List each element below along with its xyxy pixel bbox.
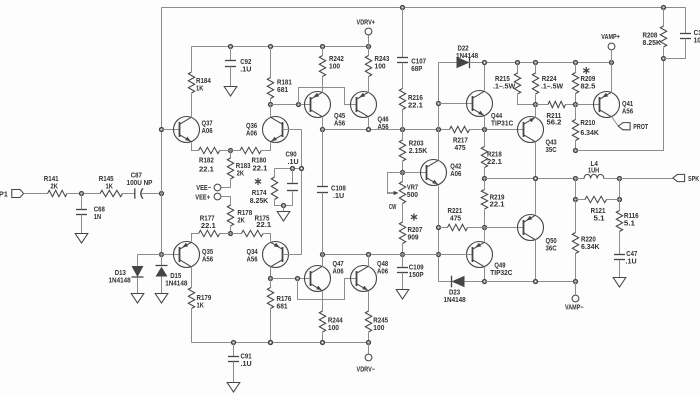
svg-text:R224: R224 bbox=[542, 76, 557, 83]
inductor L4 1UH bbox=[576, 178, 585, 180]
svg-text:C109: C109 bbox=[409, 264, 424, 271]
svg-text:A06: A06 bbox=[202, 128, 213, 135]
diode D22 1N4148 bbox=[439, 62, 457, 64]
svg-text:R208: R208 bbox=[643, 32, 658, 39]
capacitor C111 100P bbox=[685, 8, 687, 34]
wire Q44 emitter bbox=[484, 116, 486, 130]
node output rail left end bbox=[483, 177, 487, 181]
ground C109 bbox=[396, 290, 409, 300]
svg-text:R209: R209 bbox=[581, 76, 596, 83]
svg-text:A06: A06 bbox=[377, 268, 388, 275]
resistor R178 2K bbox=[221, 197, 231, 206]
svg-text:PROT: PROT bbox=[633, 124, 648, 131]
svg-text:500: 500 bbox=[407, 192, 418, 199]
terminal VAMP- bbox=[575, 282, 577, 295]
output tag SPK bbox=[673, 174, 685, 181]
svg-text:R218: R218 bbox=[487, 151, 502, 158]
svg-text:VAMP−: VAMP− bbox=[565, 304, 584, 311]
svg-text:150P: 150P bbox=[409, 272, 424, 279]
resistor R209 82.5 bbox=[575, 63, 577, 73]
resistor R219 22.1 bbox=[484, 179, 486, 190]
svg-text:Q50: Q50 bbox=[546, 238, 557, 245]
node emitter bottom pair bbox=[229, 232, 233, 236]
resistor R217 475 bbox=[450, 126, 470, 132]
svg-text:1N: 1N bbox=[94, 214, 101, 221]
wire R141 to R145 bbox=[68, 193, 101, 195]
svg-text:22.1: 22.1 bbox=[490, 201, 505, 208]
svg-text:R145: R145 bbox=[99, 176, 114, 183]
svg-text:Q44: Q44 bbox=[491, 113, 502, 120]
terminal VEE- bbox=[214, 184, 221, 191]
node R221/R219/Q49/Q50 bbox=[483, 226, 487, 230]
transistor Q34 A56 bbox=[263, 242, 289, 268]
resistor R211 56.2 bbox=[536, 104, 549, 106]
transistor Q44 TIP31C bbox=[439, 103, 473, 105]
node ground stub bbox=[282, 204, 286, 208]
svg-text:R116: R116 bbox=[624, 213, 639, 220]
wire Q36 base to C90 node and Q34 base bbox=[301, 130, 303, 255]
node R215/R224/R211/Q43 bbox=[534, 103, 538, 107]
resistor R184 1K bbox=[191, 94, 193, 118]
svg-text:Q47: Q47 bbox=[333, 261, 344, 268]
svg-text:100: 100 bbox=[329, 63, 340, 70]
transistor Q46 A56 bbox=[351, 92, 377, 118]
svg-text:A56: A56 bbox=[247, 256, 258, 263]
capacitor C92 .1U bbox=[229, 45, 233, 49]
resistor R177 22.1 bbox=[192, 234, 199, 242]
svg-text:R176: R176 bbox=[277, 296, 292, 303]
svg-text:6.34K: 6.34K bbox=[580, 130, 599, 137]
node Q34 collector bbox=[270, 267, 272, 279]
resistor R145 1K bbox=[100, 190, 123, 196]
svg-text:R207: R207 bbox=[408, 227, 423, 234]
wire Q48 collector bbox=[368, 255, 370, 267]
ground D13 bbox=[131, 294, 144, 304]
svg-text:Q41: Q41 bbox=[622, 101, 633, 108]
svg-text:22.1: 22.1 bbox=[201, 223, 216, 230]
resistor R183 2K bbox=[230, 151, 232, 159]
svg-text:8.25K: 8.25K bbox=[643, 40, 662, 47]
svg-text:100: 100 bbox=[375, 63, 386, 70]
wire VAS rail bbox=[322, 118, 324, 130]
svg-text:1UH: 1UH bbox=[588, 167, 599, 174]
svg-text:D15: D15 bbox=[170, 273, 181, 280]
resistor R121 5.1 bbox=[575, 179, 577, 200]
transistor Q37 A06 bbox=[162, 129, 180, 131]
capacitor C107 68P bbox=[401, 6, 405, 10]
wire Q47/Q48 base tie bbox=[298, 279, 357, 300]
wire Q43 emitter up bbox=[535, 105, 537, 118]
svg-text:A06: A06 bbox=[333, 268, 344, 275]
resistor R116 5.1 bbox=[619, 200, 621, 211]
resistor R180 22.1 bbox=[240, 147, 261, 153]
svg-text:1K: 1K bbox=[197, 302, 204, 309]
svg-text:36C: 36C bbox=[546, 245, 557, 252]
svg-text:VEE−: VEE− bbox=[196, 185, 211, 192]
capacitor C91 .1U bbox=[233, 343, 235, 357]
svg-text:22.1: 22.1 bbox=[408, 102, 423, 109]
svg-text:R215: R215 bbox=[495, 76, 510, 83]
wire Q43 collector down bbox=[535, 142, 537, 179]
svg-text:C107: C107 bbox=[411, 58, 426, 65]
svg-text:R181: R181 bbox=[277, 79, 292, 86]
wire Q41 emitter to PROT bbox=[612, 117, 619, 127]
terminal VDRV- bbox=[368, 343, 370, 354]
svg-text:VDRV−: VDRV− bbox=[357, 366, 376, 373]
resistor R141 2K bbox=[48, 190, 67, 196]
resistor R182 22.1 bbox=[192, 143, 199, 151]
svg-text:Q49: Q49 bbox=[494, 262, 505, 269]
svg-text:R245: R245 bbox=[373, 317, 388, 324]
network C90 parallel R174 bbox=[275, 168, 302, 170]
svg-text:VR7: VR7 bbox=[407, 184, 418, 191]
svg-text:VEE+: VEE+ bbox=[195, 195, 210, 202]
svg-text:R219: R219 bbox=[490, 194, 505, 201]
svg-text:Q36: Q36 bbox=[246, 123, 257, 130]
asterisk R174 bbox=[257, 178, 259, 185]
wire Q44 collector bbox=[484, 63, 486, 91]
transistor Q36 A06 bbox=[270, 105, 272, 118]
svg-text:100: 100 bbox=[373, 325, 384, 332]
output tag PROT bbox=[618, 123, 630, 130]
wire output rail bbox=[485, 178, 576, 180]
svg-text:1K: 1K bbox=[106, 184, 113, 191]
transistor Q49 TIP32C bbox=[439, 254, 473, 256]
svg-text:100: 100 bbox=[328, 325, 339, 332]
wire driver collector rail bbox=[323, 254, 472, 256]
wire Q41 collector to VAMP+ node bbox=[611, 63, 613, 93]
ground C90/R174 bbox=[277, 212, 290, 222]
ground C91 bbox=[227, 383, 240, 393]
wire to D13 bbox=[138, 254, 162, 256]
svg-text:.1–.5W: .1–.5W bbox=[541, 83, 564, 90]
svg-text:22.1: 22.1 bbox=[253, 165, 268, 172]
svg-text:A56: A56 bbox=[202, 256, 213, 263]
ground C92 bbox=[224, 87, 237, 97]
resistor R218 22.1 bbox=[484, 130, 486, 147]
svg-text:A06: A06 bbox=[246, 130, 257, 137]
svg-text:909: 909 bbox=[408, 234, 419, 241]
resistor R216 22.1 bbox=[399, 89, 405, 110]
trimmer VR7 500 bbox=[402, 173, 404, 182]
svg-text:.1–.5W: .1–.5W bbox=[493, 83, 516, 90]
svg-text:D23: D23 bbox=[449, 289, 460, 296]
svg-text:C68: C68 bbox=[94, 206, 105, 213]
diode D23 1N4148 bbox=[439, 281, 452, 283]
svg-text:C90: C90 bbox=[286, 151, 297, 158]
resistor R174 8.25K bbox=[274, 169, 276, 178]
svg-text:Q45: Q45 bbox=[334, 113, 345, 120]
svg-text:IP1: IP1 bbox=[0, 192, 8, 199]
svg-text:C87: C87 bbox=[131, 173, 142, 180]
wire IP1 to R141 bbox=[24, 193, 48, 195]
svg-text:2.15K: 2.15K bbox=[409, 148, 428, 155]
capacitor C87 100U NP bbox=[123, 193, 135, 195]
wire feedback top rail bbox=[162, 7, 686, 9]
svg-text:Q48: Q48 bbox=[377, 261, 388, 268]
capacitor C109 150P bbox=[401, 253, 405, 257]
svg-text:1K: 1K bbox=[196, 86, 203, 93]
svg-text:R244: R244 bbox=[328, 317, 343, 324]
transistor Q41 A56 bbox=[576, 104, 600, 106]
svg-text:R182: R182 bbox=[199, 157, 214, 164]
svg-text:C91: C91 bbox=[241, 353, 252, 360]
resistor R203 2.15K bbox=[402, 130, 404, 141]
svg-text:Q37: Q37 bbox=[202, 120, 213, 127]
svg-text:68P: 68P bbox=[411, 66, 422, 73]
svg-text:1N4148: 1N4148 bbox=[109, 278, 131, 285]
svg-text:R221: R221 bbox=[448, 208, 463, 215]
wire to SPK bbox=[620, 178, 673, 180]
transistor Q47 A06 bbox=[271, 278, 311, 280]
wire feedback to R208/C111 bbox=[576, 59, 664, 151]
svg-text:C92: C92 bbox=[240, 59, 251, 66]
svg-text:1N4148: 1N4148 bbox=[444, 297, 466, 304]
transistor Q48 A06 bbox=[351, 266, 377, 292]
svg-text:100U NP: 100U NP bbox=[127, 180, 153, 187]
svg-text:C108: C108 bbox=[331, 185, 346, 192]
node input shunt bbox=[80, 192, 84, 196]
resistor R244 100 bbox=[322, 292, 324, 312]
svg-text:82.5: 82.5 bbox=[581, 83, 596, 90]
svg-text:100: 100 bbox=[694, 37, 700, 44]
capacitor C68 1N bbox=[81, 194, 83, 210]
svg-text:A56: A56 bbox=[334, 120, 345, 127]
wire mirror base tie bbox=[299, 88, 357, 105]
svg-text:R184: R184 bbox=[196, 78, 211, 85]
svg-text:C47: C47 bbox=[626, 251, 637, 258]
svg-text:Q35: Q35 bbox=[202, 249, 213, 256]
svg-text:1N4148: 1N4148 bbox=[165, 281, 187, 288]
svg-text:VAMP+: VAMP+ bbox=[601, 34, 620, 41]
resistor R221 475 bbox=[439, 227, 448, 229]
node Q36 collector / R181 / mirror bases bbox=[269, 103, 273, 107]
node feedback tap bbox=[574, 149, 578, 153]
input tag IP1 bbox=[12, 190, 24, 198]
svg-text:.1U: .1U bbox=[288, 159, 299, 166]
svg-text:CW: CW bbox=[389, 204, 397, 211]
svg-text:2K: 2K bbox=[51, 184, 58, 191]
ground C68 bbox=[75, 234, 88, 244]
resistor R179 1K bbox=[191, 267, 193, 288]
svg-text:R183: R183 bbox=[236, 163, 251, 170]
wire negative rail bbox=[485, 281, 576, 283]
node input column bbox=[160, 192, 164, 196]
svg-text:681: 681 bbox=[277, 87, 288, 94]
resistor R215 .1-.5W bbox=[517, 63, 519, 74]
svg-text:22.1: 22.1 bbox=[256, 222, 271, 229]
terminal VEE+ bbox=[214, 193, 221, 200]
ground C47 bbox=[613, 278, 626, 288]
resistor R220 6.34K bbox=[575, 200, 577, 233]
svg-text:TIP32C: TIP32C bbox=[490, 270, 512, 277]
svg-text:56.2: 56.2 bbox=[547, 119, 562, 126]
svg-text:D22: D22 bbox=[458, 45, 469, 52]
wire VDRV+ rail bbox=[192, 46, 369, 48]
svg-text:R177: R177 bbox=[200, 215, 215, 222]
svg-text:R243: R243 bbox=[375, 56, 390, 63]
svg-text:.1U: .1U bbox=[241, 361, 252, 368]
transistor Q35 A56 bbox=[162, 254, 180, 256]
svg-text:22.1: 22.1 bbox=[487, 159, 502, 166]
svg-text:R121: R121 bbox=[591, 208, 606, 215]
svg-text:SPK: SPK bbox=[688, 176, 699, 183]
svg-text:.1U: .1U bbox=[626, 258, 637, 265]
wire bottom rail bbox=[192, 342, 369, 344]
svg-text:6.34K: 6.34K bbox=[581, 244, 600, 251]
transistor Q50 36C bbox=[485, 227, 524, 229]
transistor Q42 A06 bbox=[403, 172, 427, 174]
capacitor C90 .1U bbox=[292, 169, 294, 184]
svg-text:TIP31C: TIP31C bbox=[491, 120, 513, 127]
terminal VAMP+ bbox=[611, 51, 613, 63]
resistor R207 909 bbox=[399, 222, 405, 244]
resistor R210 6.34K bbox=[575, 105, 577, 120]
svg-text:D13: D13 bbox=[115, 270, 126, 277]
svg-text:C110: C110 bbox=[694, 30, 700, 37]
capacitor C108 .1U bbox=[322, 130, 324, 187]
terminal VDRV+ bbox=[368, 35, 370, 47]
capacitor C47 .1U bbox=[614, 254, 625, 256]
ground D15 bbox=[155, 294, 168, 304]
svg-text:R180: R180 bbox=[252, 157, 267, 164]
node VR7 top / Q42 base bbox=[401, 171, 405, 175]
svg-text:R216: R216 bbox=[408, 95, 423, 102]
diode D13 1N4148 bbox=[137, 255, 139, 267]
node Q37 base bbox=[160, 128, 164, 132]
svg-text:R217: R217 bbox=[453, 137, 468, 144]
resistor R181 681 bbox=[269, 45, 273, 49]
svg-text:475: 475 bbox=[450, 215, 461, 222]
svg-text:681: 681 bbox=[277, 303, 288, 310]
node R209/R211/R210/Q41 base bbox=[574, 103, 578, 107]
wire VAMP+ rail bbox=[485, 62, 612, 64]
svg-text:8.25K: 8.25K bbox=[250, 198, 269, 205]
resistor R242 100 bbox=[321, 45, 325, 49]
svg-text:R141: R141 bbox=[44, 176, 59, 183]
svg-text:R178: R178 bbox=[237, 210, 252, 217]
resistor R176 681 bbox=[270, 279, 272, 288]
svg-text:2K: 2K bbox=[237, 171, 244, 178]
svg-text:R179: R179 bbox=[197, 295, 212, 302]
svg-text:R174: R174 bbox=[252, 190, 267, 197]
asterisk R209 bbox=[585, 67, 587, 74]
wire Q47 collector bbox=[322, 255, 324, 267]
svg-text:R220: R220 bbox=[581, 236, 596, 243]
resistor R243 100 bbox=[367, 45, 371, 49]
svg-text:5.1: 5.1 bbox=[624, 220, 635, 227]
wire Q42 collector / D22 anode column bbox=[438, 130, 440, 161]
diode D15 1N4148 bbox=[161, 255, 163, 266]
svg-text:5.1: 5.1 bbox=[594, 215, 605, 222]
node R208/C111 bottom bbox=[662, 57, 666, 61]
wire input column vertical bbox=[161, 8, 163, 255]
transistor Q45 A56 bbox=[305, 92, 331, 118]
svg-text:35C: 35C bbox=[546, 147, 557, 154]
svg-text:1N4148: 1N4148 bbox=[456, 53, 478, 60]
asterisk R207 bbox=[413, 213, 415, 220]
svg-text:A06: A06 bbox=[450, 171, 461, 178]
svg-text:Q43: Q43 bbox=[546, 139, 557, 146]
node D15 / Q35 base bbox=[160, 253, 164, 257]
resistor R175 22.1 bbox=[220, 233, 242, 235]
svg-text:475: 475 bbox=[455, 145, 466, 152]
transistor Q43 35C bbox=[518, 117, 544, 143]
svg-text:Q34: Q34 bbox=[247, 249, 258, 256]
svg-text:22.1: 22.1 bbox=[199, 166, 214, 173]
svg-text:Q46: Q46 bbox=[378, 116, 389, 123]
svg-text:R210: R210 bbox=[580, 120, 595, 127]
resistor R245 100 bbox=[368, 292, 370, 312]
svg-text:VDRV+: VDRV+ bbox=[357, 19, 376, 26]
svg-text:R242: R242 bbox=[329, 56, 344, 63]
node emitter top pair bbox=[229, 149, 233, 153]
resistor R224 .1-.5W bbox=[535, 63, 537, 74]
svg-text:Q42: Q42 bbox=[450, 163, 461, 170]
svg-text:.1U: .1U bbox=[240, 66, 251, 73]
resistor R208 8.25K bbox=[662, 6, 666, 10]
svg-text:R203: R203 bbox=[409, 140, 424, 147]
wire Q42 emitter column bbox=[438, 186, 440, 282]
svg-text:2K: 2K bbox=[237, 217, 244, 224]
svg-text:.1U: .1U bbox=[333, 193, 344, 200]
svg-text:A56: A56 bbox=[622, 108, 633, 115]
